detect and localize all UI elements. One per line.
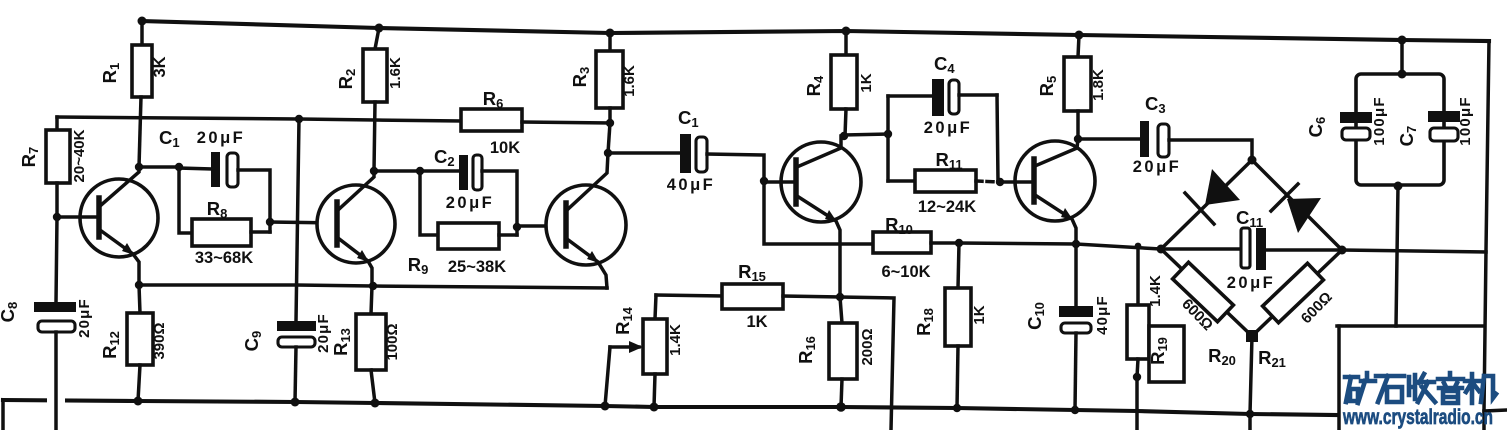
node: top rail junction R4 [842,27,851,36]
node: R19 top junction [1135,243,1142,250]
wire: top rail drop to C6/C7 [1400,40,1404,74]
node: feedback loop left junction [884,130,892,138]
capacitor C2 20uF [420,146,517,235]
wire: T4 base down to R10 [764,181,873,244]
svg-text:1K: 1K [746,313,767,331]
capacitor C10 40uF [1024,244,1111,410]
resistor R21 600ohm [1258,263,1336,370]
svg-text:25~38K: 25~38K [448,258,506,276]
wire: bridge bottom-left edge [1161,249,1252,336]
node: rail junction R16 [836,402,846,412]
svg-text:20μF: 20μF [197,129,246,147]
transistor T3 [546,153,626,288]
resistor R20 600ohm [1173,262,1236,368]
wire: right edge vertical [1484,41,1489,430]
svg-text:www.crystalradio.cn: www.crystalradio.cn [1342,406,1493,429]
wire: right bottom stub to edge [1484,410,1507,411]
resistor R6 10K feedback [461,88,610,157]
node: bridge top corner [1248,156,1257,165]
wire: bridge top-left edge [1161,160,1252,249]
capacitor C11 20uF bridge center [1161,207,1342,292]
wire: feedback loop right vertical [997,95,998,181]
diode D2 [1271,184,1321,233]
svg-text:1.4K: 1.4K [1147,275,1164,307]
wire: common emitter line T1-T2-T3 [139,285,607,288]
node: top rail junction R3 [606,29,615,38]
resistor R18 1K [913,243,988,408]
node: T3 collector junction [604,149,612,157]
svg-text:6~10K: 6~10K [881,263,930,281]
node: C9 top junction on bias line [295,115,303,123]
svg-text:20μF: 20μF [1227,274,1276,292]
node: bridge left corner [1157,245,1166,254]
wire: C6/C7 parallel loop [1356,74,1444,185]
svg-text:390Ω: 390Ω [151,322,168,359]
wire: emitter node right then down below rail [840,297,894,430]
node: rail junction wiper [601,402,610,411]
resistor R9 25~38K [408,171,517,277]
node: rail junction R14 [650,403,659,412]
node: C6/C7 top junction [1398,70,1407,79]
node: C6/C7 bottom junction [1394,182,1403,191]
node: top rail junction R1 [138,17,147,26]
svg-text:100Ω: 100Ω [384,323,401,360]
resistor R13 100ohm [330,286,401,403]
svg-text:1K: 1K [971,305,988,324]
node: top rail junction R5 [1075,31,1084,40]
node: T4 collector junction [840,132,848,140]
wire: feedback loop left vertical [886,96,890,181]
wire: bridge right corner to right edge [1342,250,1486,252]
node: T3 base junction [513,223,521,231]
node: C2/R9 left junction [416,167,424,175]
svg-text:100μF: 100μF [1371,96,1388,145]
svg-text:20~40K: 20~40K [71,129,88,182]
node: T5 base junction [996,178,1004,186]
resistor R2 1.6K [335,28,404,171]
wire: output box top edge [1337,324,1483,328]
wire: bridge bottom-right edge [1252,250,1342,336]
resistor R11 12~24K feedback [888,149,976,216]
node: rail junction bridge [1246,410,1254,418]
node: R8/C1 right junction [266,218,274,226]
potentiometer R14 1.4K [605,295,684,407]
wire: C6/C7 down to output box [1396,186,1398,326]
svg-text:12~24K: 12~24K [918,198,976,216]
svg-text:20μF: 20μF [924,119,973,137]
node: T5 emitter junction [1072,240,1080,248]
resistor R5 1.8K [1036,35,1107,139]
node: T1 collector junction [135,163,143,171]
node: R10/R18 junction [955,239,963,247]
svg-text:1.6K: 1.6K [387,57,404,89]
node: T2 collector junction [370,167,378,175]
wire: dashed link R11 to T5 base [976,181,1000,182]
svg-text:1.6K: 1.6K [621,65,638,97]
capacitor C7 100uF [1396,96,1474,146]
svg-text:40μF: 40μF [667,176,716,194]
node: rail junction R13 [371,399,380,408]
node: top rail junction R2 [375,24,384,33]
node: T5 collector junction [1074,135,1082,143]
box: R19 label box [1147,326,1184,382]
resistor R3 1.6K [569,33,638,123]
wire: bias feedback line R7 top to R6 [57,117,461,121]
capacitor C4 20uF feedback [888,53,997,137]
resistor R7 20~40K [18,117,88,217]
watermark: crystalradio logo text [1342,373,1496,429]
svg-text:20μF: 20μF [76,298,93,338]
wire: bottom rail left end drop [1,400,5,430]
svg-text:33~68K: 33~68K [195,249,253,267]
wire: bridge top-right edge [1252,160,1342,250]
node: T2 emitter junction R13 [369,282,377,290]
wire: bridge bottom corner to rail and below [1250,336,1252,430]
capacitor C1 20uF [159,127,270,232]
svg-text:40μF: 40μF [1094,295,1111,335]
wire: output box left edge [1337,326,1341,430]
svg-text:1.8K: 1.8K [1090,69,1107,101]
resistor R1 3K [99,21,169,167]
node: T1 emitter junction [135,281,143,289]
node: rail junction C9 [291,398,300,407]
svg-text:20μF: 20μF [1133,158,1182,176]
node: R6/R3 junction [606,119,614,127]
wire: emitter node line to bridge [959,243,1161,249]
wire: to T2 base [270,222,337,223]
node: rail junction R12 [134,397,143,406]
resistor R8 33~68K [179,167,270,267]
resistor R15 1K [656,261,840,331]
resistor R4 1K [803,31,875,136]
resistor R19 1.4K [1127,246,1164,430]
svg-text:1.4K: 1.4K [667,324,684,356]
wire: collector node to C1/R8 node [139,165,179,169]
svg-text:3K: 3K [151,56,169,77]
svg-text:200Ω: 200Ω [859,328,876,365]
capacitor C5 20uF coupling [1078,93,1252,176]
svg-text:100μF: 100μF [1457,96,1474,145]
wire: to T3 base [517,224,566,228]
transistor T4 [764,136,861,297]
node: rail junction C10 [1071,406,1079,414]
transistor T2 [317,171,395,286]
transistor T5 [1000,139,1095,244]
capacitor C9 20uF [241,313,332,402]
capacitor C3 40uF coupling [608,107,764,194]
node: top rail junction C6/C7 [1398,36,1407,45]
node: bridge bottom corner [1246,330,1258,342]
node: T1 base junction [53,213,61,221]
node: T4 base junction [760,177,768,185]
resistor R12 390ohm [99,285,168,401]
node: C1/R8 left junction [175,163,183,171]
node: rail junction R18 [953,404,961,412]
capacitor C6 100uF [1305,96,1388,145]
svg-text:10K: 10K [490,139,520,157]
wire: top supply rail [142,21,1489,41]
wire: bottom ground rail [3,400,1337,415]
node: T4 emitter junction [836,293,844,301]
wire: bias line down to C9 [296,119,299,321]
svg-text:20μF: 20μF [446,194,495,212]
transistor T1 [57,167,158,285]
resistor R10 6~10K [873,214,959,281]
capacitor C8 20uF [0,298,93,430]
resistor R16 200ohm [795,297,876,407]
wire: T2 collector to C2/R9 [374,169,420,173]
wire: down to collector node [608,123,610,153]
node: bridge right corner [1338,246,1347,255]
wire: collector to feedback loop [844,134,888,135]
diode D1 [1185,169,1240,224]
wire: T1 base node down to C8 [56,217,57,302]
node: R19 bottom junction [1133,373,1141,381]
svg-text:1K: 1K [858,73,875,92]
